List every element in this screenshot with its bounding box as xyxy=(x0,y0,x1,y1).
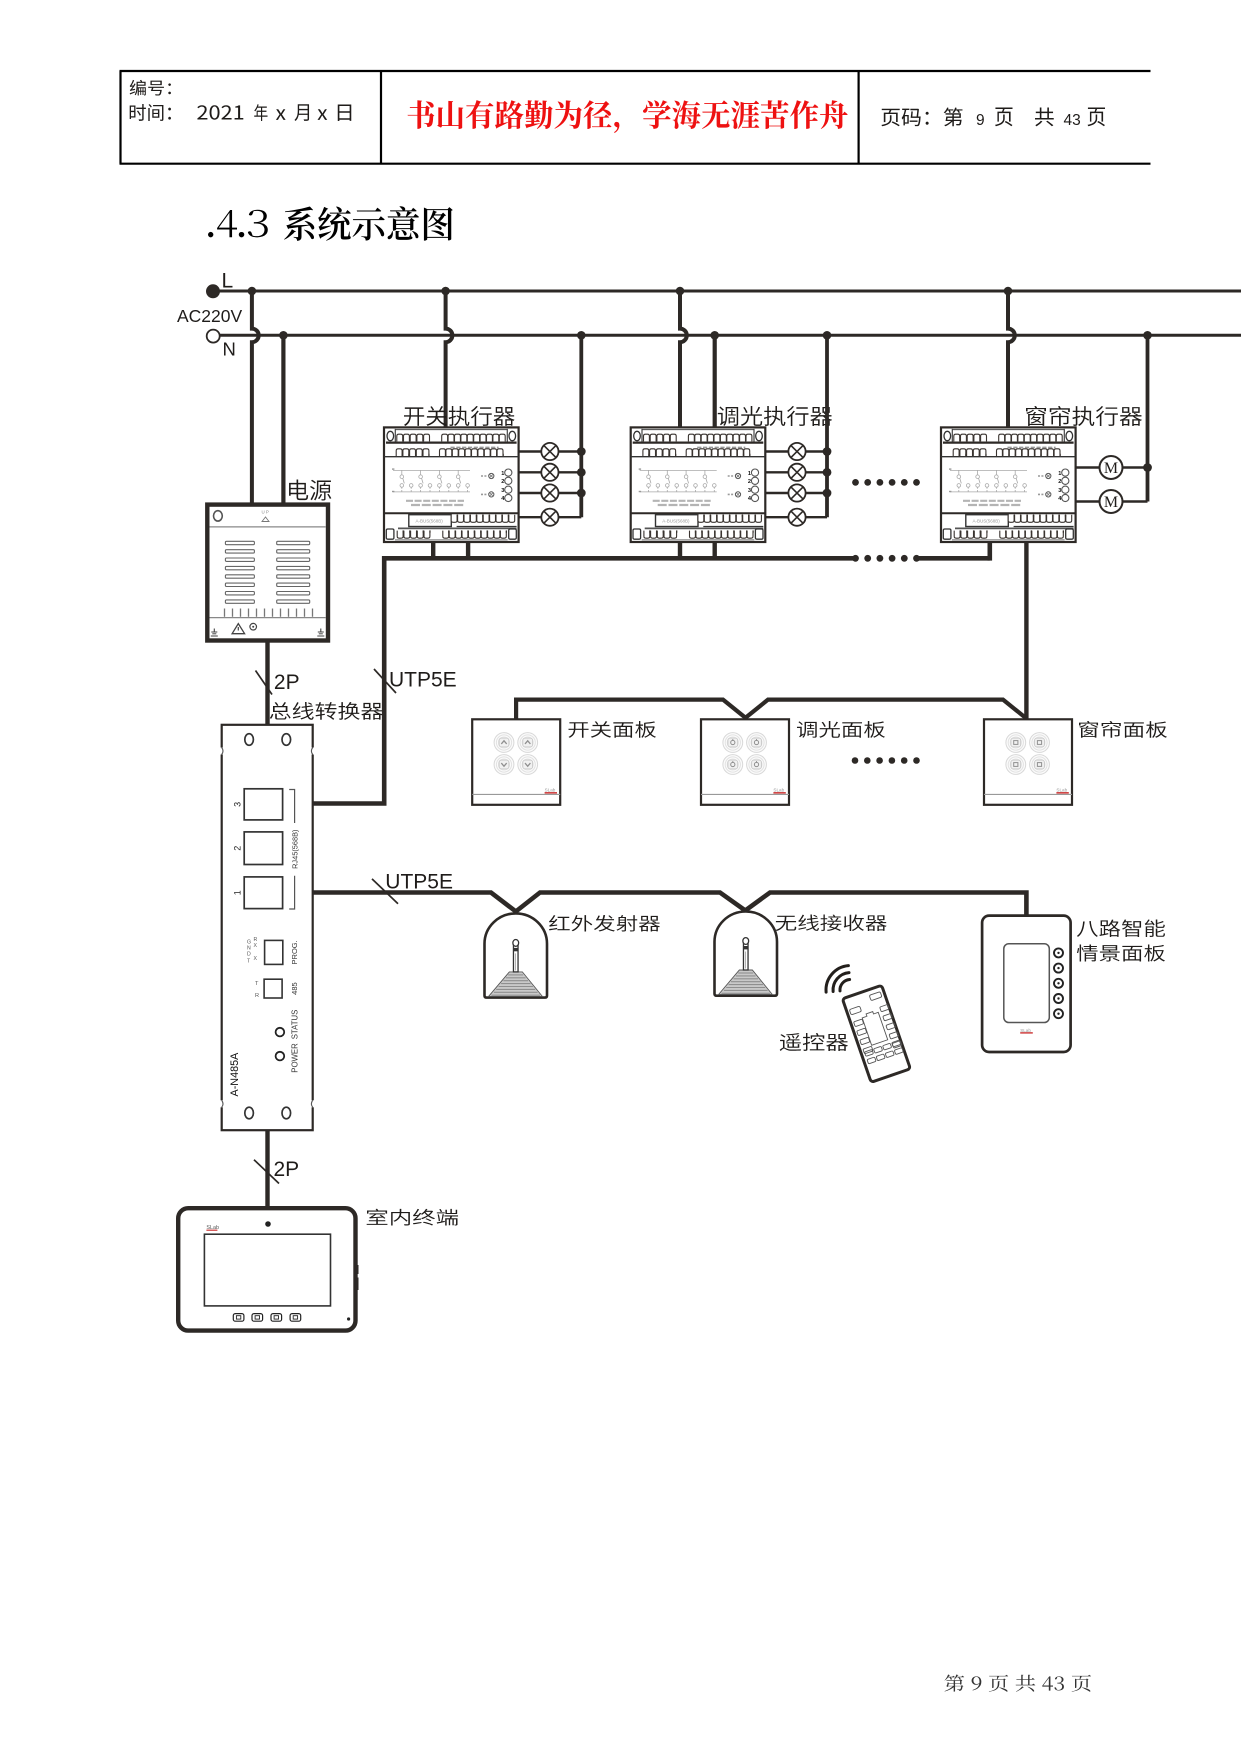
wire N feed to dimmer actuator xyxy=(713,335,717,427)
indoor terminal 室内终端 xyxy=(178,1208,355,1330)
wire switch actuator output 3 xyxy=(519,492,542,494)
svg-text:M: M xyxy=(1104,494,1118,511)
wire A-BUS bottom bus xyxy=(384,556,853,561)
wire N return column (switch group) xyxy=(579,335,583,517)
label 八路智能情景面板 xyxy=(1077,920,1165,937)
svg-text:T: T xyxy=(255,981,259,987)
svg-text:3: 3 xyxy=(501,488,504,494)
wire power supply 2P to converter xyxy=(265,641,269,727)
wire L feed to curtain actuator (hops N) xyxy=(1008,291,1015,427)
dimmer panel 调光面板 xyxy=(701,719,789,805)
svg-text:M: M xyxy=(1104,460,1118,477)
wire lamp D1 to N column xyxy=(806,450,827,452)
wire dimmer actuator output 4 xyxy=(765,516,788,518)
IR transmitter 红外发射器 xyxy=(485,913,548,997)
lamp L1 xyxy=(541,443,558,460)
lamp D4 xyxy=(788,509,805,526)
bus converter module 总线转换器 A-N485A xyxy=(222,725,313,1130)
svg-text:1: 1 xyxy=(501,471,504,477)
header motto red text xyxy=(408,100,848,133)
svg-text:9: 9 xyxy=(976,112,985,129)
wire lamp L1 to N column xyxy=(559,450,582,452)
svg-text:SLab: SLab xyxy=(773,788,784,793)
svg-text:PROG.: PROG. xyxy=(290,940,299,964)
wire switch actuator output 4 xyxy=(519,516,542,518)
header cell: 编号 label xyxy=(130,80,171,96)
svg-text:SLab: SLab xyxy=(1056,788,1067,793)
wifi waves from remote xyxy=(840,980,850,991)
switch actuator module 开关执行器 xyxy=(384,427,519,542)
wire bus to converter riser UTP5E xyxy=(313,556,385,804)
label 总线转换器 xyxy=(270,702,383,720)
svg-text:R: R xyxy=(255,993,259,999)
svg-text:L: L xyxy=(222,270,234,293)
lamp L4 xyxy=(541,509,558,526)
svg-text:UTP5E: UTP5E xyxy=(385,870,453,893)
svg-text:POWER: POWER xyxy=(290,1043,299,1073)
svg-text:SLab: SLab xyxy=(545,788,556,793)
scene panel 八路智能情景面板 xyxy=(982,916,1071,1052)
wire N return column (curtain group) xyxy=(1146,335,1150,501)
svg-text:A-N485A: A-N485A xyxy=(229,1052,241,1097)
wire dimmer actuator bus stubs xyxy=(678,542,682,558)
ellipsis dots in bus xyxy=(852,555,920,562)
ellipsis dots between panels xyxy=(852,757,920,764)
wire curtain actuator output 2 xyxy=(1076,500,1100,502)
header cell: 时间 date line xyxy=(130,104,171,121)
svg-text:485: 485 xyxy=(290,982,299,995)
motor M1 xyxy=(1100,456,1123,479)
lamp D3 xyxy=(788,484,805,501)
lamp L3 xyxy=(541,484,558,501)
label 遥控器 xyxy=(780,1033,848,1051)
svg-text:1: 1 xyxy=(748,471,751,477)
svg-text:U P: U P xyxy=(262,510,269,515)
wire lamp D4 to N column xyxy=(806,516,827,518)
wire switch actuator output 1 xyxy=(519,450,542,452)
lamp D1 xyxy=(788,443,805,460)
wire dimmer actuator output 2 xyxy=(765,471,788,473)
wire N line xyxy=(220,334,1241,337)
wire motor M2 to N column xyxy=(1123,500,1148,502)
remote control 遥控器 xyxy=(842,985,910,1082)
wire curtain actuator bus stub xyxy=(987,542,992,561)
wire curtain actuator to panel bus riser xyxy=(1024,542,1028,720)
svg-text:2P: 2P xyxy=(274,671,300,694)
label UTP5E upper with tick xyxy=(374,669,396,693)
svg-text:3: 3 xyxy=(748,488,751,494)
label 室内终端 xyxy=(367,1209,458,1226)
wireless receiver 无线接收器 xyxy=(715,912,778,996)
node N terminal xyxy=(207,330,220,343)
wire dimmer actuator output 1 xyxy=(765,450,788,452)
svg-text:1: 1 xyxy=(1058,471,1061,477)
svg-text:N: N xyxy=(223,338,236,359)
svg-text:SLab: SLab xyxy=(1020,1028,1031,1033)
lamp L2 xyxy=(541,464,558,481)
dimmer actuator module 调光执行器 xyxy=(631,427,766,542)
wire lamp D3 to N column xyxy=(806,492,827,494)
wire N return column (dimmer group) xyxy=(825,335,829,517)
curtain actuator module 窗帘执行器 xyxy=(941,427,1076,542)
svg-text:STATUS: STATUS xyxy=(290,1010,299,1040)
svg-text:3: 3 xyxy=(1058,488,1061,494)
curtain panel 窗帘面板 xyxy=(984,719,1072,805)
lamp D2 xyxy=(788,464,805,481)
svg-text:43: 43 xyxy=(1064,112,1081,129)
node L terminal xyxy=(206,284,220,298)
power supply module 电源 xyxy=(207,505,328,641)
wire lamp L3 to N column xyxy=(559,492,582,494)
svg-text:A-BUS(568B): A-BUS(568B) xyxy=(662,519,690,524)
wire switch actuator output 2 xyxy=(519,471,542,473)
wire L line xyxy=(213,290,1241,293)
footer page number xyxy=(945,1675,1091,1692)
svg-text:D: D xyxy=(247,952,251,958)
svg-text:A-BUS(568B): A-BUS(568B) xyxy=(973,519,1001,524)
junction dots on L line xyxy=(248,287,257,296)
wire lamp L2 to N column xyxy=(559,471,582,473)
wire panel bus xyxy=(516,700,1026,720)
junction dots on N line xyxy=(279,331,288,340)
label 2P lower with tick xyxy=(254,1160,279,1184)
wire N feed to power supply xyxy=(281,335,285,504)
wire curtain actuator output 1 xyxy=(1076,466,1100,468)
switch panel 开关面板 xyxy=(472,719,560,805)
wire motor M1 to N column xyxy=(1123,466,1148,468)
label UTP5E lower with tick xyxy=(372,879,398,904)
svg-text:RJ45(568B): RJ45(568B) xyxy=(291,829,300,868)
wire lamp L4 to N column xyxy=(559,516,582,518)
wire switch actuator bus stubs xyxy=(431,542,435,558)
svg-text:1: 1 xyxy=(233,890,243,895)
wire converter 2P to indoor terminal xyxy=(265,1130,269,1209)
wire L feed to power supply (hops N) xyxy=(252,291,259,505)
ellipsis dots between actuators xyxy=(852,479,920,486)
svg-text:2: 2 xyxy=(748,479,751,485)
svg-text:X: X xyxy=(254,943,258,949)
svg-text:2P: 2P xyxy=(274,1158,300,1181)
wire L feed to dimmer actuator (hops N) xyxy=(680,291,687,427)
header table border xyxy=(120,71,1151,164)
wire L feed to switch actuator (hops N) xyxy=(446,291,453,427)
wire lower UTP5E bus xyxy=(313,893,1027,916)
svg-text:2: 2 xyxy=(1058,479,1061,485)
label 2P upper with tick xyxy=(256,671,273,695)
svg-text:2: 2 xyxy=(501,479,504,485)
wire dimmer actuator output 3 xyxy=(765,492,788,494)
wire lamp D2 to N column xyxy=(806,471,827,473)
svg-text:UTP5E: UTP5E xyxy=(389,669,457,692)
header cell: 页码 xyxy=(881,107,962,126)
svg-text:2: 2 xyxy=(233,846,243,851)
label 电源 xyxy=(289,479,331,500)
motor M2 xyxy=(1100,490,1123,513)
svg-text:X: X xyxy=(254,956,258,962)
svg-text:AC220V: AC220V xyxy=(177,306,243,326)
svg-text:A-BUS(568B): A-BUS(568B) xyxy=(416,519,444,524)
section title .4.3 xyxy=(208,232,213,237)
svg-text:3: 3 xyxy=(233,802,243,807)
